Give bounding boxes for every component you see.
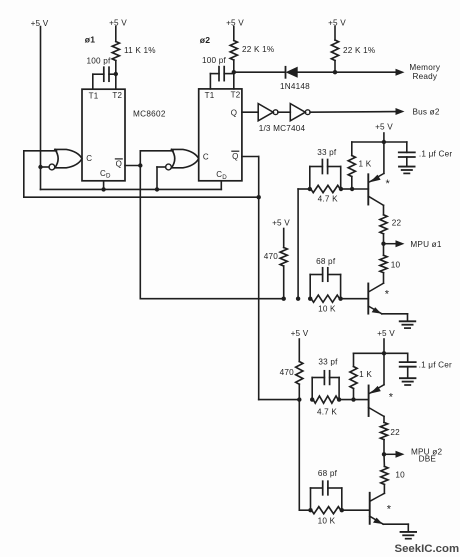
svg-text:*: * [385,288,390,300]
svg-text:T2: T2 [112,91,122,100]
svg-text:*: * [389,391,394,403]
svg-text:+5 V: +5 V [272,218,290,227]
svg-text:SeekIC.com: SeekIC.com [395,543,460,555]
svg-text:+5 V: +5 V [31,19,49,28]
svg-text:T2: T2 [231,91,241,100]
svg-text:Q: Q [232,152,238,161]
svg-text:+5 V: +5 V [291,329,309,338]
svg-text:+5 V: +5 V [109,18,127,27]
svg-text:Q: Q [231,109,237,118]
svg-text:22 K 1%: 22 K 1% [242,45,274,54]
svg-text:MPU ø1: MPU ø1 [410,240,441,249]
svg-text:10 K: 10 K [318,516,336,525]
svg-text:10: 10 [395,471,405,480]
svg-text:C: C [203,153,209,162]
svg-text:22: 22 [392,219,402,228]
svg-text:100 pf: 100 pf [202,56,226,65]
svg-text:68 pf: 68 pf [316,257,336,266]
svg-text:1 K: 1 K [359,160,372,169]
svg-text:4.7 K: 4.7 K [318,195,338,204]
svg-text:ø2: ø2 [200,35,210,45]
svg-text:+5 V: +5 V [377,329,395,338]
svg-text:+5 V: +5 V [328,18,346,27]
svg-text:10 K: 10 K [318,305,336,314]
svg-text:DBE: DBE [419,455,437,464]
svg-text:*: * [387,503,392,515]
svg-text:10: 10 [391,260,401,269]
svg-text:4.7 K: 4.7 K [317,407,337,416]
svg-text:11 K 1%: 11 K 1% [124,46,156,55]
svg-text:CD: CD [216,170,227,181]
svg-text:1 K: 1 K [359,370,372,379]
svg-text:Ready: Ready [412,72,437,81]
svg-text:Q: Q [116,160,122,169]
svg-text:+5 V: +5 V [226,18,244,27]
svg-text:T1: T1 [205,91,215,100]
svg-text:22: 22 [390,428,400,437]
svg-text:*: * [385,178,390,190]
svg-text:33 pf: 33 pf [318,357,338,366]
svg-text:MC8602: MC8602 [133,109,166,118]
svg-text:CD: CD [100,169,111,180]
svg-text:C: C [86,154,92,163]
svg-text:470: 470 [264,252,279,261]
svg-text:+5 V: +5 V [375,122,393,131]
svg-text:1/3 MC7404: 1/3 MC7404 [259,124,306,133]
svg-text:ø1: ø1 [85,35,95,45]
svg-text:1N4148: 1N4148 [280,82,310,91]
svg-text:.1 μf Cer: .1 μf Cer [419,361,452,370]
svg-text:100 pf: 100 pf [87,57,111,66]
svg-text:T1: T1 [89,91,99,100]
svg-text:Memory: Memory [409,63,440,72]
svg-text:Bus ø2: Bus ø2 [413,107,440,116]
svg-text:470: 470 [280,368,295,377]
svg-text:22 K 1%: 22 K 1% [343,46,375,55]
svg-text:.1 μf Cer: .1 μf Cer [419,150,452,159]
svg-text:68 pf: 68 pf [318,469,338,478]
svg-text:33 pf: 33 pf [317,148,337,157]
